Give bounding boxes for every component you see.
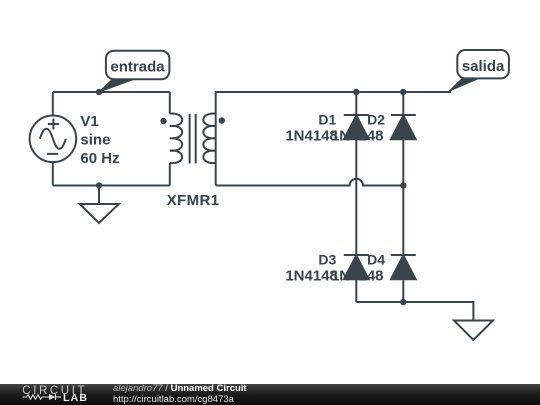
wire D1-D3 branch [355,92,357,255]
wire V1 top lead [52,92,54,116]
node entrada junction [96,89,102,95]
svg-text:D4: D4 [367,251,385,267]
CircuitLab logo [0,384,110,405]
node D4 bottom junction [400,299,406,305]
wire D3 bottom lead [355,279,357,302]
wire bottom output rail to ground [356,302,473,321]
callout salida bubble [457,50,509,78]
label D3 [285,251,338,284]
node ground junction [96,182,102,188]
node D2 top junction [400,89,406,95]
svg-text:V1: V1 [80,113,98,130]
diode D1 [344,115,369,139]
node D1 top junction [353,89,359,95]
label D4 [331,251,385,284]
wire left ground stub [98,186,100,205]
svg-text:sine: sine [80,131,110,148]
diode D2 [391,115,416,139]
svg-text:LAB: LAB [63,392,88,404]
transformer XFMR1 core [190,114,196,164]
label D2 [331,111,385,144]
svg-text:D1: D1 [318,111,336,127]
wire primary bottom lead [169,163,171,186]
wire D4 bottom lead [402,279,404,302]
wire primary top lead [169,92,171,114]
diode D4 [391,255,416,279]
transformer XFMR1 primary phase dot [160,118,166,124]
label D1 [285,111,338,144]
wire D2-D4 branch [402,92,404,255]
transformer XFMR1 primary winding [170,113,182,163]
label V1 value [80,113,119,167]
svg-text:salida: salida [462,58,505,75]
wire secondary top lead and salida rail [216,92,451,163]
transformer XFMR1 secondary winding [203,113,215,163]
voltage source V1 [30,116,77,163]
svg-text:XFMR1: XFMR1 [167,192,220,209]
svg-text:entrada: entrada [110,58,165,75]
footer credit text [113,384,247,405]
wire top-left rail (V1 to primary) [53,91,170,93]
wire V1 bottom lead [52,162,54,185]
svg-text:60 Hz: 60 Hz [80,150,119,167]
footer bar [0,384,540,405]
callout entrada tail [99,79,134,92]
callout salida tail [449,78,479,91]
wire secondary bottom lead [215,163,217,186]
wire bottom-left rail [53,185,170,187]
ground (right) [454,321,493,341]
svg-text:D2: D2 [367,111,385,127]
diode D3 [344,255,369,279]
node D2-D4 mid junction [400,182,406,188]
transformer XFMR1 secondary phase dot [219,117,225,123]
ground (left) [80,204,119,223]
svg-text:D3: D3 [318,251,336,267]
callout entrada bubble [106,51,169,80]
wire secondary bottom rail with hop over D1 branch [216,179,404,186]
